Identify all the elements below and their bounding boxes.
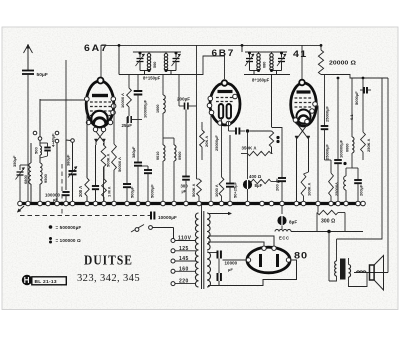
coil 0000 right	[351, 78, 353, 137]
resistor 20K	[201, 122, 203, 130]
wire detector column	[247, 131, 249, 154]
wire HT down from bus	[317, 205, 319, 213]
tube 6B7 anode bar	[218, 90, 233, 93]
capacitor 25000pF screen	[324, 75, 326, 126]
tube 41 base	[297, 110, 311, 124]
coil IF1 primary	[149, 54, 151, 71]
junction dot (500000pF)	[246, 129, 249, 132]
wire 80 plate loop	[219, 260, 297, 286]
tube 41 grid dashes	[295, 97, 313, 99]
svg-text:200µF: 200µF	[359, 184, 364, 196]
tube 6A7 cathode arch	[94, 118, 106, 124]
svg-text:= 500000µF: = 500000µF	[56, 225, 82, 230]
resistor 10000 ohm	[128, 75, 130, 89]
tube 41 legs crossing	[297, 123, 309, 139]
coil osc 0010	[163, 145, 165, 161]
resistor 1M	[102, 179, 107, 197]
double junction dot 100000ohm	[276, 136, 279, 139]
svg-text:50µF: 50µF	[37, 72, 48, 78]
tube 6B7 envelope U2	[210, 83, 240, 125]
capacitor 100000pF right	[337, 78, 339, 159]
capacitor dark small right	[363, 87, 365, 94]
tube 6B7 diode plates	[219, 104, 223, 119]
legend double dot resistor	[49, 237, 52, 240]
tube 6A7 base circle	[91, 111, 107, 127]
speaker driver	[370, 265, 375, 280]
svg-text:080: 080	[263, 62, 267, 68]
resistor 25000 ohm	[330, 160, 332, 173]
wire HT secondary arrow	[208, 213, 230, 215]
voltage tap 220	[171, 282, 175, 286]
voltage tap 145	[171, 259, 175, 263]
svg-text:10000 Λ: 10000 Λ	[120, 93, 125, 108]
svg-text:1000 Λ: 1000 Λ	[214, 184, 219, 197]
wire drop top to IF2	[241, 45, 243, 52]
svg-text:1 M Λ: 1 M Λ	[107, 186, 112, 197]
tube 6A7 anode bar	[92, 94, 108, 97]
svg-text:0010: 0010	[156, 152, 160, 160]
tube 6B7 pins	[208, 96, 213, 101]
svg-text:20000 Ω: 20000 Ω	[329, 61, 357, 67]
power transformer primary winding	[195, 213, 198, 287]
output transformer core	[340, 259, 346, 280]
wire AVC bracket	[272, 128, 283, 154]
voltage tap 125	[171, 249, 175, 253]
capacitor 200pF output	[357, 168, 359, 180]
coil L2 antenna primary	[29, 163, 31, 184]
coil IF2 primary	[259, 54, 261, 71]
svg-text:5000µF: 5000µF	[150, 184, 155, 198]
svg-text:10000: 10000	[225, 261, 238, 266]
tube 6A7 envelope U1	[86, 81, 114, 127]
svg-text:400 Ω: 400 Ω	[249, 174, 262, 179]
wire right column x197	[196, 45, 198, 179]
chassis dashed line	[20, 215, 150, 217]
svg-text:µF: µF	[182, 189, 187, 194]
wire grid line to 6A7 top cap loop	[100, 45, 102, 77]
svg-text:6A7: 6A7	[84, 42, 109, 53]
voltage tap 160	[171, 269, 175, 273]
mains switch	[131, 225, 144, 233]
capacitor 300pF	[182, 176, 190, 178]
wire HT rail right	[321, 75, 388, 79]
capacitor 100000pF (AVC)	[137, 75, 139, 92]
wire 41 cathode down	[296, 139, 298, 202]
switch contacts (band switch)	[33, 131, 37, 135]
tube 6A7 pins	[85, 97, 90, 102]
resistor detector load	[269, 131, 273, 147]
svg-text:500: 500	[34, 147, 39, 154]
capacitor cathode bypass (dark)	[95, 145, 97, 186]
tube 80 left anode	[259, 254, 262, 267]
wire right feed down	[303, 205, 305, 232]
resistor 300 ohm	[317, 210, 338, 214]
resistor 1000 ohm	[221, 131, 223, 177]
tube 6B7 grid dashes	[216, 97, 234, 99]
svg-text:8÷160µF: 8÷160µF	[252, 78, 270, 83]
svg-text:25000µF: 25000µF	[325, 144, 330, 160]
trimmer capacitor 4-40pF	[44, 147, 50, 149]
tube 41 cathode arch	[299, 116, 309, 121]
svg-text:DUITSE: DUITSE	[84, 253, 133, 268]
coil L3 antenna secondary	[40, 163, 42, 184]
capacitor 8uF electrolytic	[243, 180, 252, 189]
capacitor 50+25uF	[229, 135, 231, 183]
resistor 500K (osc grid)	[103, 143, 105, 145]
ground arrow	[18, 206, 25, 212]
trimmer capacitor IF2-b	[281, 52, 283, 58]
svg-text:125: 125	[179, 246, 189, 252]
coil L1 500	[40, 146, 42, 155]
trimmer capacitor IF2-a	[249, 52, 251, 58]
svg-text:µF: µF	[228, 267, 233, 272]
svg-text:25µF: 25µF	[122, 123, 133, 128]
tube 6A7 grid dashes	[90, 101, 111, 103]
wire 6B7 left pin down	[210, 114, 212, 202]
svg-text:220: 220	[179, 279, 189, 285]
svg-text:100K Λ: 100K Λ	[307, 182, 312, 196]
svg-text:10000µF: 10000µF	[158, 215, 177, 220]
capacitor 5000pF	[147, 166, 149, 170]
svg-text:ECC: ECC	[279, 236, 290, 241]
wire grid coupling left branch	[65, 60, 67, 140]
svg-text:380µF: 380µF	[131, 146, 136, 158]
speaker cone	[374, 256, 383, 291]
tube 41 anode bar	[297, 90, 311, 93]
wire drop to IF1	[118, 45, 120, 74]
resistor 250K	[362, 78, 364, 132]
tube 41 pins	[293, 118, 298, 123]
svg-text:0800: 0800	[23, 174, 28, 184]
IF transformer T1 rail	[119, 74, 177, 76]
wire 41 screen down	[315, 106, 318, 204]
wire osc column	[185, 110, 187, 177]
svg-text:1000: 1000	[156, 105, 160, 113]
svg-text:323, 342, 345: 323, 342, 345	[77, 272, 140, 284]
tube 6B7 top cap	[222, 80, 228, 86]
svg-text:8÷150µF: 8÷150µF	[143, 76, 161, 81]
svg-text:300 Ω: 300 Ω	[321, 219, 335, 225]
coil 100 small	[344, 176, 346, 190]
tube 80 right anode	[276, 254, 279, 267]
antenna	[27, 46, 29, 70]
chassis dash-dot vertical	[61, 164, 63, 216]
wire IF1 secondary bottom	[166, 70, 176, 72]
tube 6A7 lead legs	[96, 132, 104, 143]
junction dot output	[327, 230, 330, 233]
wire choke to resistor	[291, 231, 363, 233]
capacitor 10000 buffer a	[217, 251, 219, 259]
coil IF1 secondary	[166, 54, 168, 71]
svg-text:20K Λ: 20K Λ	[204, 136, 209, 147]
svg-text:0.1: 0.1	[349, 114, 354, 120]
wire detector feed	[271, 75, 273, 128]
svg-text:50000 Λ: 50000 Λ	[117, 157, 122, 172]
capacitor 50pF (antenna series)	[22, 70, 34, 72]
svg-text:0900: 0900	[178, 152, 182, 160]
output transformer secondary	[349, 265, 351, 277]
output transformer primary	[336, 239, 338, 261]
svg-text:200 µF: 200 µF	[275, 178, 280, 191]
trimmer capacitor 380pF	[72, 143, 74, 172]
wire coil block to bus	[30, 143, 32, 163]
svg-text:500µF: 500µF	[130, 186, 135, 198]
capacitor 100000pF (near bus)	[65, 140, 67, 190]
tube 6B7 legs	[221, 117, 223, 131]
logo box BL 21-13	[32, 277, 67, 285]
svg-text:8µF: 8µF	[289, 220, 297, 225]
tube 80 side pins	[246, 258, 250, 262]
svg-text:160: 160	[179, 266, 189, 272]
choke coil ECC	[281, 226, 283, 230]
logo circle monogram	[22, 275, 32, 285]
svg-text:25000µF: 25000µF	[214, 135, 219, 151]
svg-text:145: 145	[179, 256, 189, 262]
wire center tap	[208, 252, 217, 254]
junction dots HT rail	[337, 77, 340, 80]
svg-text:25000µF: 25000µF	[325, 106, 330, 122]
tube 80 envelope U4	[247, 247, 290, 273]
wire buffer column	[218, 259, 220, 274]
resistor 50000 ohm	[113, 100, 115, 144]
junction dots top wire	[118, 44, 121, 47]
svg-text:50+25µF: 50+25µF	[233, 181, 238, 198]
svg-text:5000µF: 5000µF	[354, 91, 359, 105]
svg-text:8µF: 8µF	[255, 183, 263, 188]
resistor 100K	[308, 139, 310, 172]
coil IF2 secondary	[272, 54, 274, 71]
trimmer capacitor IF1-a	[139, 52, 141, 58]
svg-text:500K Λ: 500K Λ	[106, 153, 111, 167]
capacitor 10000 buffer b	[217, 273, 219, 281]
wire switch stub	[56, 143, 58, 202]
power transformer secondary winding	[207, 213, 210, 250]
wire AVC link	[250, 130, 272, 132]
legend bullet capacitor	[49, 225, 53, 229]
wire bus drop to filter	[281, 205, 283, 214]
wire 6B7 grid cap lead	[177, 56, 225, 79]
wire top HT line	[101, 44, 321, 46]
tube 80 heater pins	[262, 246, 266, 250]
wire heater to 80 pin a	[208, 236, 274, 246]
capacitor 200pF AF	[281, 153, 283, 178]
svg-text:100000µF: 100000µF	[143, 99, 148, 118]
voltage tap 110V	[171, 239, 175, 243]
svg-text:100000µF: 100000µF	[339, 139, 344, 158]
capacitor 6B7 cathode (dark)	[235, 128, 237, 135]
resistor 200 ohm cathode	[86, 101, 88, 178]
capacitor 25pF	[128, 107, 130, 116]
capacitor 500pF	[126, 117, 128, 183]
coil osc 0900	[173, 138, 175, 145]
tube 6A7 top cap	[98, 78, 104, 84]
wire right edge vertical	[387, 78, 389, 273]
IF transformer T2 rails	[245, 51, 287, 53]
wire speaker HT feed	[337, 78, 383, 239]
voice coil	[354, 272, 388, 274]
svg-text:110V: 110V	[178, 236, 192, 242]
tube 41 top cap	[299, 80, 305, 86]
resistor 500K (osc anode)	[197, 179, 202, 196]
power transformer core	[201, 211, 203, 289]
capacitor 10000pF mains	[150, 212, 152, 220]
svg-text:250K Λ: 250K Λ	[366, 138, 371, 152]
svg-text:500K Λ: 500K Λ	[191, 183, 196, 197]
wire IF2 secondary bottom	[272, 70, 282, 72]
resistor 20000 ohm vertical	[320, 45, 322, 50]
svg-text:0000: 0000	[346, 144, 350, 152]
svg-text:9500: 9500	[43, 173, 48, 183]
wire bus to transformer	[201, 205, 203, 211]
trimmer capacitor IF1-b	[175, 52, 177, 58]
coil osc grid 0001	[162, 75, 164, 96]
wire antenna down-lead	[27, 74, 29, 165]
wire down to output transformer	[328, 232, 330, 282]
svg-text:= 100000 Ω: = 100000 Ω	[56, 238, 81, 243]
svg-text:4÷40µF: 4÷40µF	[51, 133, 56, 147]
wire 41 grid cap lead	[301, 45, 303, 80]
ground bus	[18, 202, 363, 205]
trimmer capacitor 350pF	[20, 164, 28, 166]
capacitor 8uF filter	[277, 216, 286, 225]
svg-text:350K Λ: 350K Λ	[242, 146, 257, 151]
capacitor 380pF (IF)	[134, 162, 142, 164]
junction dot right	[343, 162, 346, 165]
svg-text:41: 41	[293, 48, 308, 59]
svg-text:350µF: 350µF	[12, 155, 17, 167]
tube 41 envelope U3	[291, 83, 317, 126]
bus nodes	[18, 201, 23, 206]
svg-text:500: 500	[153, 62, 157, 68]
svg-text:200 Λ: 200 Λ	[78, 186, 83, 197]
wire heater to 80 pin b	[208, 242, 264, 246]
svg-text:BL 21-13: BL 21-13	[35, 279, 57, 285]
